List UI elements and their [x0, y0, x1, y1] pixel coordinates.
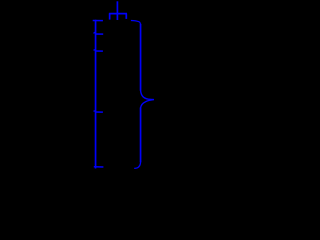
tick 3 (graduation) — [95, 111, 103, 113]
brace lower stem — [140, 108, 142, 163]
tick 4 (bottom graduation) — [94, 166, 104, 168]
tick 2 serif — [94, 49, 96, 52]
wire (central terminal lead) — [116, 1, 118, 20]
brace bottom curl — [134, 162, 140, 169]
node + (cross bar of terminal) — [109, 13, 127, 15]
tick 1 (graduation) — [95, 33, 103, 35]
brace upper stem — [140, 24, 142, 91]
tick 3 serif — [94, 110, 96, 113]
brace cusp — [141, 90, 154, 107]
tick 2 (graduation) — [95, 50, 103, 52]
wire (left rail / scale line) — [95, 20, 97, 169]
tick 0 (top graduation) — [93, 19, 103, 21]
brace top curl — [131, 21, 141, 25]
tick 1 serif — [94, 32, 96, 33]
pin (right hanger stub) — [125, 14, 127, 19]
pin (left hanger stub) — [109, 14, 111, 20]
